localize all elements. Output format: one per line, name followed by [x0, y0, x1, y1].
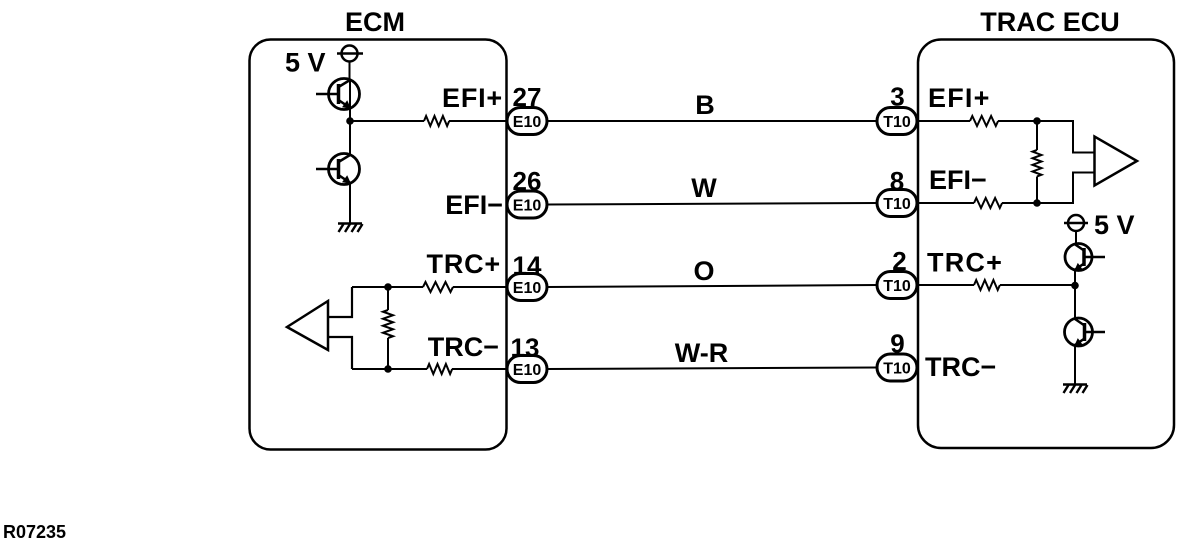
- svg-text:B: B: [695, 90, 715, 120]
- svg-text:EFI+: EFI+: [442, 83, 503, 113]
- svg-text:R07235: R07235: [3, 522, 66, 540]
- svg-text:TRC+: TRC+: [927, 248, 1003, 278]
- svg-text:EFI−: EFI−: [445, 190, 503, 220]
- svg-text:T10: T10: [883, 360, 911, 377]
- svg-text:E10: E10: [513, 280, 542, 297]
- svg-text:14: 14: [513, 251, 542, 281]
- svg-text:2: 2: [892, 246, 906, 276]
- svg-text:T10: T10: [883, 196, 911, 213]
- svg-text:EFI+: EFI+: [928, 83, 991, 113]
- svg-text:26: 26: [513, 166, 542, 196]
- svg-text:TRC−: TRC−: [925, 352, 996, 382]
- svg-text:5 V: 5 V: [1094, 210, 1135, 240]
- svg-text:O: O: [693, 256, 714, 286]
- svg-text:TRC+: TRC+: [427, 249, 501, 279]
- svg-text:TRC−: TRC−: [428, 332, 499, 362]
- svg-text:8: 8: [890, 166, 904, 196]
- svg-text:13: 13: [511, 333, 540, 363]
- svg-text:3: 3: [890, 82, 904, 112]
- svg-text:ECM: ECM: [345, 7, 405, 37]
- svg-text:W: W: [691, 173, 717, 203]
- svg-text:E10: E10: [513, 197, 542, 214]
- svg-text:E10: E10: [513, 114, 542, 131]
- svg-text:5 V: 5 V: [285, 48, 326, 78]
- svg-text:E10: E10: [513, 362, 542, 379]
- svg-text:9: 9: [890, 329, 904, 359]
- svg-text:EFI−: EFI−: [929, 165, 987, 195]
- svg-text:27: 27: [513, 82, 542, 112]
- svg-text:T10: T10: [883, 114, 911, 131]
- svg-text:W-R: W-R: [675, 338, 728, 368]
- svg-text:TRAC ECU: TRAC ECU: [980, 7, 1120, 37]
- svg-text:T10: T10: [883, 278, 911, 295]
